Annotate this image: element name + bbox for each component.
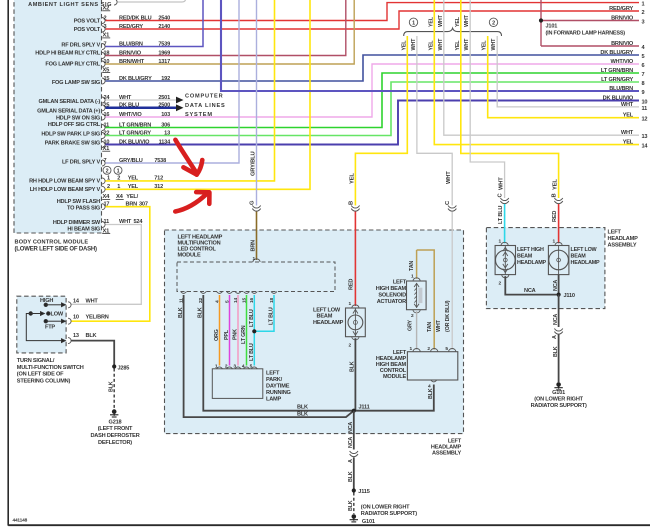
wire LT BLU module pin 18 joins pin 16 wire [254, 295, 274, 331]
svg-text:YEL: YEL [482, 40, 488, 51]
svg-text:WHT: WHT [464, 14, 470, 27]
svg-text:ASSEMBLY: ASSEMBLY [608, 242, 637, 248]
wire BLK switch to J285 [71, 341, 114, 365]
control module pin 5 bump [449, 349, 456, 352]
svg-text:BLK: BLK [348, 500, 354, 511]
lamp pin 2 [227, 367, 233, 369]
svg-text:13: 13 [642, 134, 648, 140]
BCM pin 10 [102, 61, 105, 67]
svg-text:A: A [552, 335, 558, 339]
BCM pin 11 dimmer hi beam [102, 222, 105, 228]
module pin 18 [271, 292, 277, 294]
junction LT BLU [252, 329, 256, 333]
svg-text:HDLP DIMMER SW: HDLP DIMMER SW [53, 220, 101, 226]
svg-text:(ON LOWER RIGHT: (ON LOWER RIGHT [534, 397, 583, 403]
wire LT GRN/BRN 306 [106, 73, 640, 128]
lamp pin 1 [217, 367, 223, 369]
svg-text:WHT: WHT [436, 319, 442, 332]
wire RED/GRY 2140 [106, 11, 640, 29]
wire BLK to G101 right [558, 335, 560, 383]
svg-text:YEL: YEL [553, 179, 559, 190]
svg-text:J285: J285 [118, 365, 130, 371]
svg-text:(LOWER LEFT SIDE OF DASH): (LOWER LEFT SIDE OF DASH) [15, 247, 98, 253]
wire YEL/BRN 307 [71, 207, 150, 322]
svg-text:TAN: TAN [427, 322, 433, 332]
svg-text:PNK: PNK [233, 329, 239, 340]
wire WHT pair1 to connector C [417, 36, 452, 206]
wire BRN/WHT 1317 [106, 0, 355, 64]
svg-text:LOW: LOW [51, 312, 64, 318]
svg-text:YEL: YEL [401, 40, 407, 51]
svg-text:DK BLU/GRY: DK BLU/GRY [600, 50, 633, 56]
svg-text:RH HDLP LOW BEAM SPY V: RH HDLP LOW BEAM SPY V [29, 179, 100, 185]
svg-text:BLK: BLK [178, 307, 184, 318]
left headlamp multifunction LED control module box [165, 230, 464, 434]
junction J110 [557, 293, 561, 297]
wire DK BLU/VIO 1134 [106, 101, 640, 145]
svg-text:NCA: NCA [553, 314, 559, 325]
svg-text:BLK: BLK [350, 361, 356, 372]
svg-text:YEL/: YEL/ [126, 194, 138, 200]
wire WHT pair4 to terminal 11 [497, 36, 639, 107]
turn signal multifunction switch box [17, 296, 66, 353]
wire WHT 2501 GMLAN [106, 99, 177, 101]
svg-text:HDLP OFF SIG CTRL: HDLP OFF SIG CTRL [48, 122, 101, 128]
connector A right [554, 332, 562, 335]
solenoid pin1 bump [413, 278, 420, 281]
computer data lines arrow 2 [176, 104, 184, 111]
switch low contact and common [26, 312, 65, 343]
switch pin 10 [68, 318, 71, 324]
svg-text:2: 2 [642, 10, 645, 16]
page frame bottom border [8, 524, 650, 526]
connector G [252, 209, 260, 212]
svg-text:BEAM: BEAM [571, 254, 587, 260]
svg-text:YEL: YEL [428, 16, 434, 27]
svg-text:LT BLU: LT BLU [498, 206, 504, 224]
switch pin 14 [68, 302, 71, 308]
wire TAN solenoid pin1 up [416, 250, 418, 279]
wire YEL 312 [106, 0, 311, 189]
svg-text:12: 12 [642, 117, 648, 123]
connector C [448, 209, 456, 212]
right high beam pin 1 bump [501, 242, 508, 245]
svg-text:RUNNING: RUNNING [266, 390, 291, 396]
wire BLK pin 11 to J111 [184, 295, 354, 417]
annotation arrow 1 [175, 140, 202, 175]
svg-text:HI BEAM SIG: HI BEAM SIG [67, 226, 100, 232]
svg-text:BLK: BLK [198, 307, 204, 318]
svg-text:ORG: ORG [214, 329, 220, 341]
svg-text:LEFT LOW: LEFT LOW [571, 247, 598, 253]
left low beam pin 2 bump [352, 337, 359, 340]
junction J101 [539, 18, 543, 22]
module pin 1 bump [253, 259, 260, 262]
module pin 5 [227, 292, 233, 294]
svg-text:POS VOLT: POS VOLT [74, 27, 101, 33]
svg-text:LEFT: LEFT [266, 371, 280, 377]
control module pin 1 bump [413, 349, 420, 352]
svg-text:2: 2 [106, 169, 109, 175]
BCM pin ambient light sens sig [114, 0, 117, 5]
wire WHT pair3 to connector C right [470, 0, 504, 198]
svg-text:G218: G218 [109, 419, 122, 425]
wire YEL pair2 to terminal 14 [434, 0, 639, 145]
svg-text:7: 7 [642, 72, 645, 78]
connector B right [554, 201, 562, 204]
svg-text:LAMP: LAMP [266, 397, 282, 403]
connector A left [350, 454, 358, 457]
wire WHT 524 [71, 225, 141, 305]
svg-text:YEL: YEL [455, 40, 461, 51]
wire BLK existing to G218 [113, 369, 115, 410]
BCM pin function labels [29, 19, 101, 233]
svg-text:J115: J115 [358, 489, 369, 495]
svg-text:NCA: NCA [348, 437, 354, 448]
left high beam headlamp [495, 246, 515, 275]
BCM pin 2-1 LH low beam spy [102, 186, 105, 192]
svg-text:GRY/BLU: GRY/BLU [251, 152, 257, 176]
svg-text:WHT: WHT [446, 171, 452, 184]
svg-text:PPL: PPL [224, 329, 230, 340]
BCM pin 16 [102, 114, 105, 120]
svg-text:FOG LAMP SW SIG: FOG LAMP SW SIG [52, 80, 100, 86]
wire TAN to control module pin 2 [417, 250, 435, 350]
wire RED to right low beam headlamp [558, 204, 560, 243]
wire NCA low beam to J110 [558, 275, 560, 295]
svg-text:HEADLAMP: HEADLAMP [431, 445, 462, 451]
svg-text:(LEFT FRONT: (LEFT FRONT [98, 426, 133, 432]
BCM pin 18 [102, 53, 105, 59]
svg-text:LT GRN: LT GRN [241, 325, 247, 344]
junction J115 [352, 488, 356, 492]
left low beam headlamp right [548, 246, 569, 275]
wire WHT to high beam control module pin 5 [451, 212, 453, 350]
svg-text:DASH DEFROSTER: DASH DEFROSTER [90, 433, 139, 439]
wire PNK module pin 14 to lamp pin 3 [237, 295, 239, 366]
svg-text:LT BLU: LT BLU [249, 343, 255, 361]
svg-text:LF DRL SPLY V: LF DRL SPLY V [62, 160, 100, 166]
svg-text:J110: J110 [564, 293, 575, 299]
svg-text:LEFT HIGH: LEFT HIGH [517, 247, 544, 253]
svg-text:1: 1 [412, 21, 415, 27]
BCM pin 7 X1 [102, 44, 105, 50]
svg-text:HEADLAMP: HEADLAMP [313, 320, 344, 326]
wire PPL module pin 5 to lamp pin 2 [229, 295, 231, 366]
svg-text:HDLP SW ON SIG: HDLP SW ON SIG [56, 116, 100, 122]
svg-text:ACTUATOR: ACTUATOR [377, 299, 406, 305]
wire DK BLU 2500 GMLAN [106, 107, 177, 110]
module internal block [177, 262, 335, 292]
switch pin 13 [68, 338, 71, 344]
svg-text:HEADLAMP: HEADLAMP [571, 260, 601, 266]
circled note 1 [114, 166, 122, 174]
svg-text:DATA LINES: DATA LINES [185, 103, 226, 109]
ground G101 [350, 514, 358, 522]
BCM pin 2 [102, 18, 105, 24]
BCM pin 22 [102, 133, 105, 139]
connector B [351, 209, 359, 212]
svg-text:LT BLU: LT BLU [249, 309, 255, 327]
svg-text:6: 6 [642, 63, 645, 69]
svg-text:LEFT: LEFT [608, 230, 622, 236]
svg-text:3: 3 [642, 20, 645, 26]
svg-text:BRN/VIO: BRN/VIO [611, 16, 634, 22]
left low beam pin 1 bump [352, 305, 359, 308]
right low beam pin 1 bump [555, 242, 562, 245]
svg-text:BRN: BRN [251, 240, 257, 252]
wire WHT pair2 to terminal 13 [444, 0, 639, 135]
svg-text:STEERING COLUMN): STEERING COLUMN) [17, 378, 71, 384]
wire YEL pair3 to connector B right [461, 0, 559, 198]
svg-text:NCA: NCA [524, 288, 536, 294]
svg-text:DK BLU/VIO: DK BLU/VIO [603, 96, 634, 102]
wire LT BLU to left high beam headlamp [504, 204, 506, 243]
wire BRN to module pin 1 [256, 212, 258, 261]
ground G218 [110, 409, 118, 417]
BCM pin 15 X5 [102, 78, 105, 84]
svg-text:HEADLAMP: HEADLAMP [517, 260, 547, 266]
wire BLU/BRN to terminal 9 [221, 0, 639, 91]
ground G101 right [554, 382, 562, 390]
BCM pin 1-2 RH low beam spy [102, 178, 105, 184]
svg-text:HDLP HI BEAM RLY CTRL: HDLP HI BEAM RLY CTRL [35, 51, 100, 57]
svg-text:(IN FORWARD LAMP HARNESS): (IN FORWARD LAMP HARNESS) [546, 30, 626, 36]
switch high contact [44, 303, 65, 307]
wire WHT ambient light sens sig [118, 0, 186, 2]
svg-text:WHT: WHT [464, 38, 470, 51]
svg-text:BLK: BLK [428, 388, 434, 399]
svg-text:G: G [250, 200, 256, 205]
svg-text:WHT/VIO: WHT/VIO [610, 59, 633, 65]
module pin 22 [200, 292, 206, 294]
lamp pin 4 [244, 367, 250, 369]
svg-text:J101: J101 [546, 23, 558, 29]
svg-text:(ON LEFT SIDE OF: (ON LEFT SIDE OF [17, 372, 64, 378]
svg-text:1: 1 [642, 2, 645, 8]
svg-text:RED/GRY: RED/GRY [609, 6, 633, 12]
left low beam headlamp [346, 308, 366, 337]
module pin 11 [181, 292, 187, 294]
svg-text:HDLP SW FLASH: HDLP SW FLASH [57, 199, 100, 205]
svg-text:GMLAN SERIAL DATA (-): GMLAN SERIAL DATA (-) [39, 99, 101, 105]
left park daytime running lamp [212, 369, 262, 399]
wire RED to left low beam headlamp [354, 212, 356, 307]
svg-text:2: 2 [492, 21, 495, 27]
svg-text:YEL: YEL [349, 173, 355, 184]
wire GRY solenoid to control module pin 1 [416, 311, 418, 349]
svg-text:BRN/VIO: BRN/VIO [611, 41, 634, 47]
module pin 14 [235, 292, 241, 294]
annotation arrow 2 [175, 192, 209, 211]
connector C right [500, 201, 508, 204]
wire LT BLU module pin 16 to lamp pin 5 [253, 295, 255, 366]
svg-text:WHT: WHT [86, 298, 99, 304]
svg-text:NCA: NCA [553, 280, 559, 291]
svg-text:MODULE: MODULE [383, 374, 407, 380]
svg-text:HDLP SW PARK LP SIG: HDLP SW PARK LP SIG [41, 132, 100, 138]
wire DK BLU/GRY 192 [106, 55, 640, 81]
wire WHT/VIO 103 [106, 64, 640, 117]
svg-text:GMLAN SERIAL DATA (+): GMLAN SERIAL DATA (+) [37, 109, 100, 115]
computer data lines arrow 1 [176, 97, 184, 104]
svg-text:B: B [348, 201, 354, 205]
control module pin 4 [431, 380, 437, 382]
module pin 16 [251, 292, 257, 294]
wire BLK to J115 [353, 457, 355, 489]
wire BLK existing to G101 [353, 493, 355, 515]
svg-text:AMBIENT LIGHT SENS SIG: AMBIENT LIGHT SENS SIG [28, 2, 112, 8]
wire BLU/BRN 7539 [106, 0, 204, 47]
BCM pin 17 flash to pass [102, 204, 105, 210]
page frame left border [7, 0, 9, 526]
svg-text:DEFLECTOR): DEFLECTOR) [98, 440, 132, 446]
svg-text:BLK: BLK [553, 346, 559, 357]
left headlamp assembly box [486, 228, 605, 309]
svg-text:10: 10 [642, 100, 648, 106]
svg-text:13: 13 [73, 333, 79, 339]
BCM pin 3 [102, 26, 105, 32]
svg-text:441148: 441148 [13, 518, 28, 524]
svg-text:WHT: WHT [499, 177, 505, 190]
wire BRN/VIO terminal 3 [541, 20, 639, 22]
svg-text:WHT: WHT [438, 14, 444, 27]
svg-text:RADIATOR SUPPORT): RADIATOR SUPPORT) [531, 403, 587, 409]
svg-text:RED: RED [349, 279, 355, 290]
svg-text:G101: G101 [552, 390, 565, 396]
svg-text:PARK/: PARK/ [266, 377, 283, 383]
svg-text:MULTI-FUNCTION SWITCH: MULTI-FUNCTION SWITCH [17, 365, 84, 371]
svg-text:RED: RED [552, 211, 558, 222]
svg-text:HIGH BEAM: HIGH BEAM [376, 286, 407, 292]
svg-text:LT GRN/BRN: LT GRN/BRN [601, 68, 633, 74]
svg-text:FTP: FTP [45, 325, 55, 331]
wire BRN/VIO junction vertical [540, 0, 542, 46]
wire YEL pair4 to terminal 12 [488, 36, 639, 118]
svg-text:NCA: NCA [348, 422, 354, 433]
wire BLK low beam to J111 [354, 338, 356, 411]
control module pin 2 bump [431, 349, 438, 352]
svg-text:POS VOLT: POS VOLT [74, 19, 101, 25]
svg-text:HEADLAMP: HEADLAMP [608, 236, 639, 242]
body control module box [14, 0, 102, 233]
wire GRY/BLU to connector G [256, 0, 258, 206]
wire GRY/BLU 7538 [106, 0, 240, 163]
svg-text:ASSEMBLY: ASSEMBLY [432, 451, 461, 457]
lamp pin 3 [235, 367, 241, 369]
switch flash-to-pass contact [44, 319, 65, 323]
BCM pin 11 [102, 125, 105, 131]
junction J111 [352, 409, 356, 413]
svg-text:COMPUTER: COMPUTER [185, 94, 223, 100]
svg-text:RF DRL SPLY V: RF DRL SPLY V [61, 42, 100, 48]
svg-text:B: B [552, 194, 558, 198]
svg-text:J111: J111 [359, 405, 370, 411]
svg-text:WHT: WHT [491, 38, 497, 51]
svg-text:GRY: GRY [407, 320, 413, 331]
svg-text:LT BLU: LT BLU [268, 307, 274, 325]
circled note 1 top [409, 18, 417, 27]
svg-text:BLU/BRN: BLU/BRN [609, 86, 633, 92]
svg-text:TO PASS SIG: TO PASS SIG [67, 205, 100, 211]
svg-text:TURN SIGNAL/: TURN SIGNAL/ [17, 358, 55, 364]
wire BRN/VIO 1969 [106, 0, 346, 56]
svg-text:BODY CONTROL MODULE: BODY CONTROL MODULE [15, 240, 89, 246]
svg-text:BLK: BLK [348, 471, 354, 482]
svg-text:BLK: BLK [109, 381, 115, 392]
svg-text:FOG LAMP RLY CTRL: FOG LAMP RLY CTRL [45, 62, 100, 68]
svg-text:8: 8 [642, 81, 645, 87]
module pin 4 [217, 292, 223, 294]
wire BRN/VIO terminal 4 [541, 45, 639, 47]
svg-text:LEFT: LEFT [393, 280, 407, 286]
svg-text:WHT: WHT [411, 38, 417, 51]
svg-text:PARK BRAKE SW SIG: PARK BRAKE SW SIG [45, 141, 100, 147]
svg-text:YEL: YEL [455, 16, 461, 27]
svg-text:WHT: WHT [438, 38, 444, 51]
svg-text:BLK: BLK [86, 333, 97, 339]
svg-text:(OR DK BLU): (OR DK BLU) [445, 300, 451, 332]
left high beam solenoid actuator [407, 281, 427, 310]
BCM pin 10 park brake [102, 142, 105, 148]
left headlamp high beam control module [407, 352, 457, 380]
circled note 2 top [489, 18, 497, 27]
harness brace [404, 28, 502, 36]
svg-text:BLK: BLK [297, 412, 308, 418]
BCM pin 24 [102, 97, 105, 103]
svg-text:LEFT LOW: LEFT LOW [313, 308, 341, 314]
svg-text:G101: G101 [362, 519, 375, 525]
svg-text:BEAM: BEAM [517, 254, 533, 260]
wire ORG module pin 4 to lamp pin 1 [219, 295, 221, 366]
lamp pin 5 [251, 367, 257, 369]
svg-text:LT GRN/GRY: LT GRN/GRY [601, 77, 633, 83]
module pin 15 [244, 292, 250, 294]
svg-text:YEL/BRN: YEL/BRN [86, 315, 109, 321]
svg-text:5: 5 [642, 54, 645, 60]
wire LT GRN/GRY 13 [106, 82, 640, 136]
svg-text:BEAM: BEAM [317, 314, 333, 320]
svg-text:LH HDLP LOW BEAM SPY V: LH HDLP LOW BEAM SPY V [30, 187, 101, 193]
circled note 2 [103, 166, 111, 174]
wire YEL pair1 to connector B [355, 36, 407, 206]
right edge terminal number and wire labels [600, 2, 648, 150]
BCM pin 7 LF DRL [102, 160, 105, 166]
svg-text:1: 1 [117, 169, 120, 175]
svg-text:(ON LOWER RIGHT: (ON LOWER RIGHT [361, 505, 410, 511]
wire NCA J110 down [558, 295, 560, 327]
svg-text:BLK: BLK [297, 404, 308, 410]
wire RED/DK BLU 2540 [106, 3, 640, 21]
svg-text:11: 11 [642, 106, 648, 112]
wire YEL 712 [106, 0, 275, 181]
svg-text:YEL: YEL [428, 40, 434, 51]
wire BLK pin 22 to J111 and control module pin 4 [203, 295, 433, 411]
svg-text:TAN: TAN [409, 261, 415, 271]
right high beam pin 2 bump [502, 275, 509, 278]
svg-text:9: 9 [642, 90, 645, 96]
svg-text:RADIATOR SUPPORT): RADIATOR SUPPORT) [361, 511, 417, 517]
svg-text:MODULE: MODULE [178, 252, 202, 258]
svg-text:LEFT: LEFT [448, 438, 462, 444]
svg-text:10: 10 [73, 315, 79, 321]
solenoid pin2 bump [413, 310, 420, 313]
BCM pin 25 [102, 105, 105, 111]
wire NCA J111 down [353, 411, 355, 450]
wire NCA high beam to J110 [505, 276, 556, 295]
svg-text:SOLENOID: SOLENOID [378, 293, 406, 299]
svg-text:DAYTIME: DAYTIME [266, 384, 290, 390]
